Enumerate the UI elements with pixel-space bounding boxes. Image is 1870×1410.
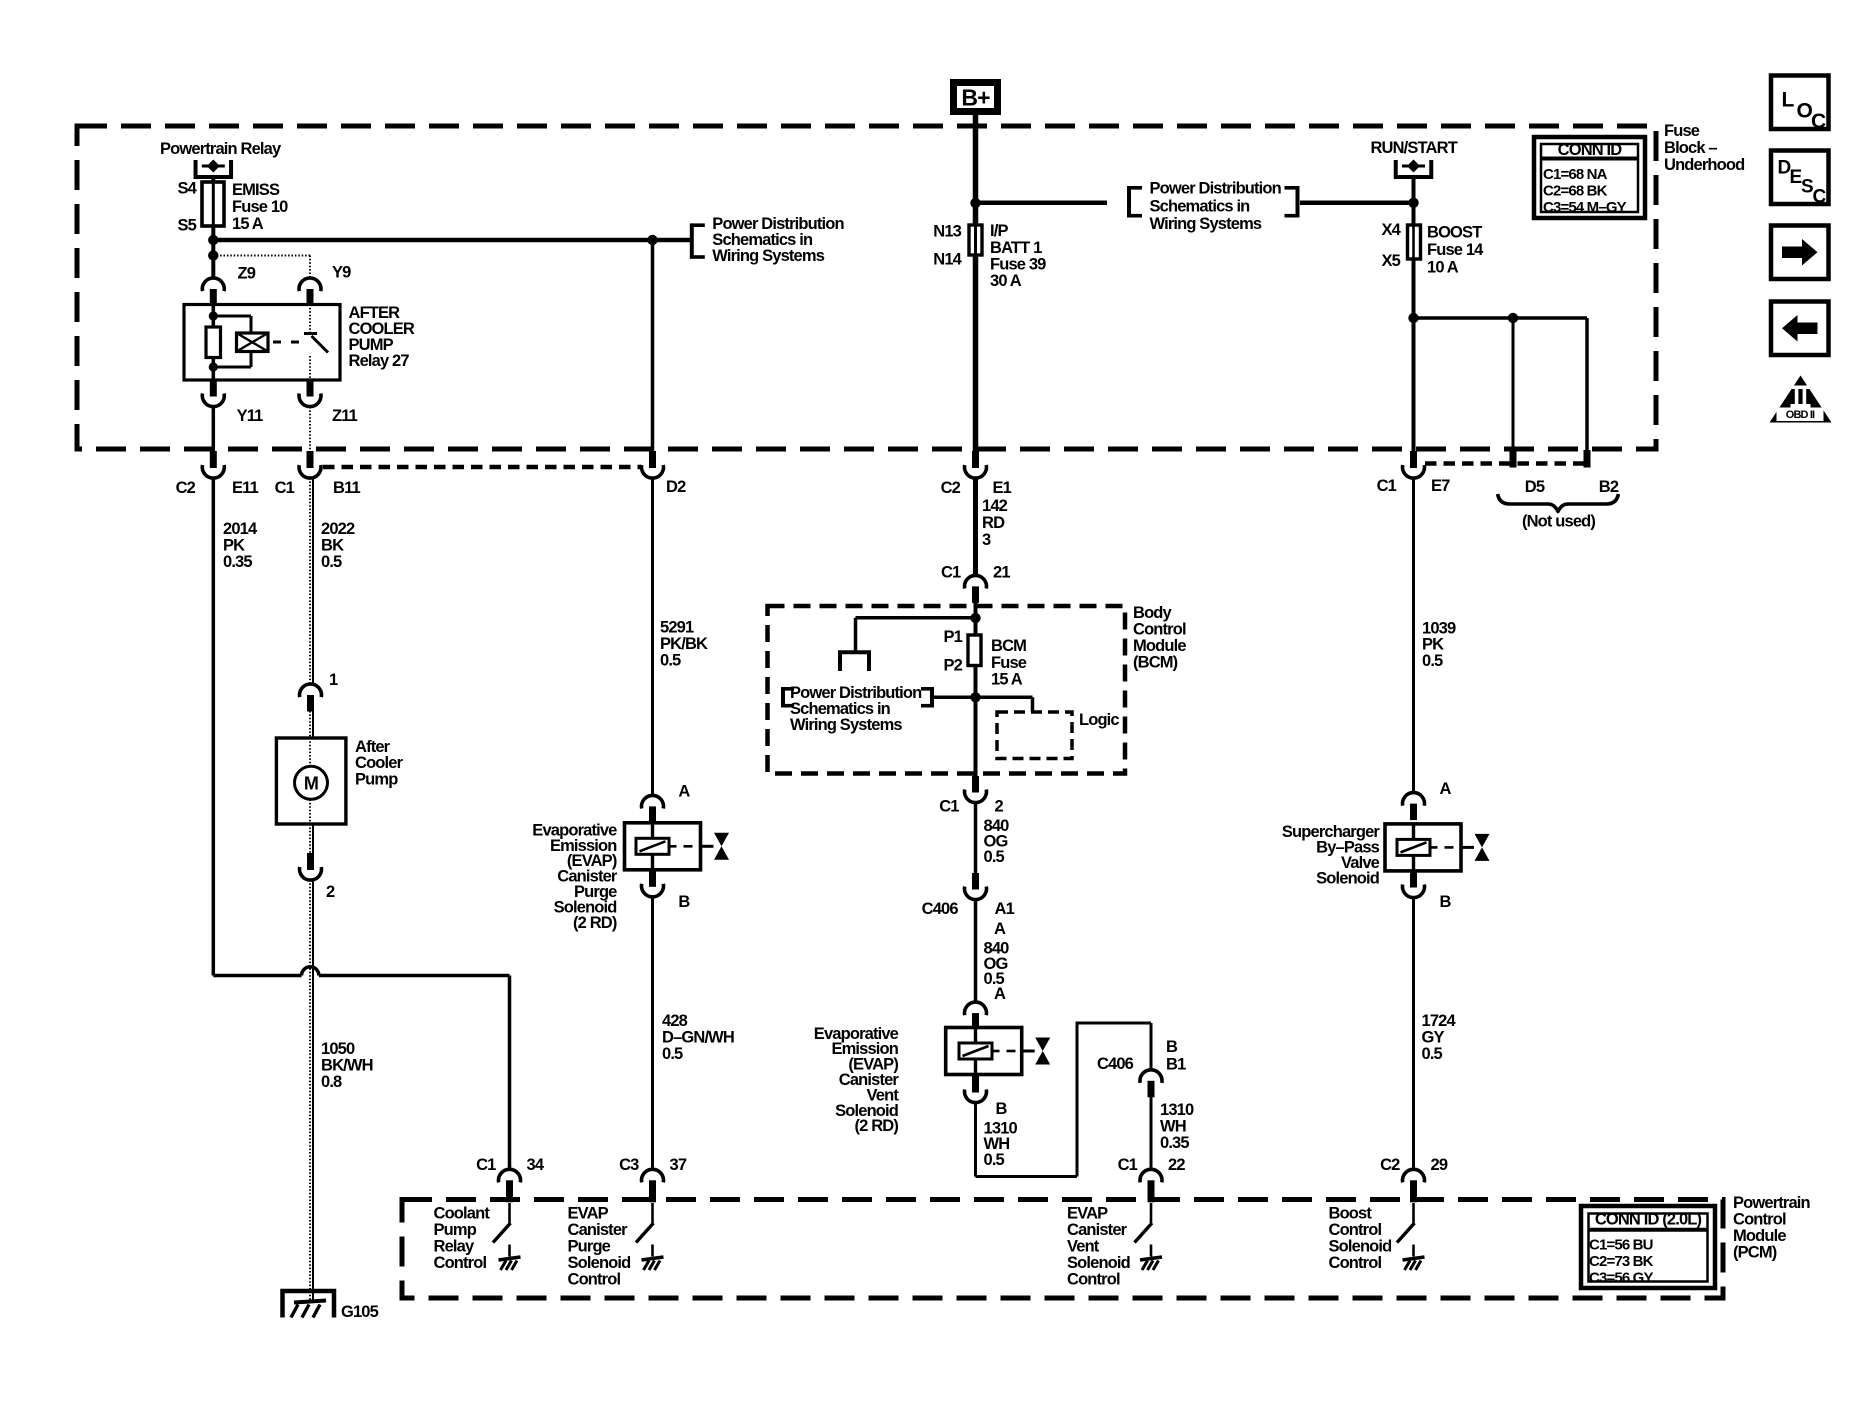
svg-text:WH: WH — [1160, 1117, 1186, 1135]
svg-text:22: 22 — [1168, 1156, 1185, 1174]
svg-text:Control: Control — [1733, 1210, 1786, 1228]
svg-text:Module: Module — [1133, 637, 1186, 655]
svg-text:Logic: Logic — [1079, 711, 1119, 729]
svg-text:30 A: 30 A — [990, 272, 1022, 290]
svg-text:Wiring Systems: Wiring Systems — [1150, 215, 1262, 233]
svg-text:C: C — [1811, 110, 1826, 133]
svg-text:Powertrain Relay: Powertrain Relay — [160, 140, 282, 158]
svg-text:1050: 1050 — [321, 1040, 355, 1058]
svg-text:E1: E1 — [993, 479, 1012, 497]
svg-text:A: A — [994, 920, 1006, 938]
svg-text:BK/WH: BK/WH — [321, 1056, 373, 1074]
svg-text:Fuse 39: Fuse 39 — [990, 255, 1046, 273]
svg-text:CONN ID (2.0L): CONN ID (2.0L) — [1595, 1210, 1702, 1228]
svg-text:C3=56 GY: C3=56 GY — [1589, 1269, 1654, 1286]
svg-text:(Not used): (Not used) — [1522, 512, 1595, 530]
svg-text:0.35: 0.35 — [1160, 1134, 1189, 1152]
svg-text:PK: PK — [223, 536, 245, 554]
svg-text:Wiring Systems: Wiring Systems — [790, 716, 902, 734]
svg-text:Fuse 14: Fuse 14 — [1427, 241, 1484, 259]
svg-text:C1: C1 — [275, 479, 295, 497]
svg-text:C1: C1 — [476, 1156, 496, 1174]
svg-text:C2: C2 — [941, 479, 961, 497]
svg-text:Pump: Pump — [434, 1221, 477, 1239]
svg-text:Control: Control — [1133, 620, 1186, 638]
svg-text:Relay 27: Relay 27 — [349, 352, 410, 370]
svg-text:34: 34 — [527, 1156, 545, 1174]
svg-text:Solenoid: Solenoid — [1067, 1254, 1130, 1272]
svg-text:BCM: BCM — [991, 637, 1026, 655]
svg-text:5291: 5291 — [660, 618, 694, 636]
svg-text:C1: C1 — [1118, 1156, 1138, 1174]
svg-text:S: S — [1801, 176, 1813, 197]
svg-text:0.5: 0.5 — [1422, 652, 1443, 670]
svg-text:S4: S4 — [178, 179, 198, 197]
svg-text:Power Distribution: Power Distribution — [1150, 180, 1282, 198]
svg-text:Z11: Z11 — [332, 407, 358, 425]
svg-text:Y11: Y11 — [237, 407, 264, 425]
svg-text:2: 2 — [995, 797, 1004, 815]
svg-text:1724: 1724 — [1422, 1012, 1457, 1030]
svg-text:GY: GY — [1422, 1028, 1445, 1046]
svg-text:C1: C1 — [941, 563, 961, 581]
svg-text:Fuse 10: Fuse 10 — [232, 198, 288, 216]
svg-text:L: L — [1782, 89, 1795, 112]
svg-text:E11: E11 — [232, 479, 259, 497]
svg-text:Cooler: Cooler — [355, 754, 404, 772]
svg-text:C1: C1 — [939, 797, 959, 815]
svg-text:Body: Body — [1133, 604, 1173, 622]
svg-text:E7: E7 — [1431, 477, 1450, 495]
svg-text:Solenoid: Solenoid — [568, 1254, 631, 1272]
svg-text:Powertrain: Powertrain — [1733, 1194, 1811, 1212]
svg-text:(2 RD): (2 RD) — [573, 914, 617, 932]
svg-text:Fuse: Fuse — [991, 654, 1027, 672]
svg-text:N13: N13 — [933, 222, 961, 240]
svg-text:Z9: Z9 — [238, 264, 256, 282]
svg-text:0.8: 0.8 — [321, 1073, 342, 1091]
svg-text:C2=68 BK: C2=68 BK — [1543, 182, 1608, 199]
svg-text:EVAP: EVAP — [568, 1204, 609, 1222]
svg-text:2: 2 — [326, 883, 335, 901]
svg-text:C1=68 NA: C1=68 NA — [1543, 166, 1608, 183]
svg-text:0.35: 0.35 — [223, 553, 252, 571]
svg-text:(BCM): (BCM) — [1133, 653, 1178, 671]
svg-text:Canister: Canister — [568, 1221, 629, 1239]
svg-text:BK: BK — [321, 536, 344, 554]
svg-text:C2: C2 — [1380, 1156, 1400, 1174]
svg-text:Y9: Y9 — [332, 264, 351, 282]
svg-text:C406: C406 — [922, 900, 959, 918]
svg-text:C1=56 BU: C1=56 BU — [1589, 1236, 1653, 1253]
svg-text:Block –: Block – — [1664, 139, 1717, 157]
svg-text:1: 1 — [329, 671, 338, 689]
svg-text:EMISS: EMISS — [232, 181, 280, 199]
svg-text:142: 142 — [982, 497, 1008, 515]
svg-text:B2: B2 — [1599, 478, 1619, 496]
svg-text:X4: X4 — [1382, 221, 1402, 239]
svg-text:C3=54 M–GY: C3=54 M–GY — [1543, 199, 1627, 216]
svg-text:I/P: I/P — [990, 222, 1008, 240]
svg-text:G105: G105 — [341, 1303, 379, 1321]
svg-text:0.5: 0.5 — [660, 651, 681, 669]
svg-text:37: 37 — [670, 1156, 687, 1174]
svg-text:29: 29 — [1431, 1156, 1448, 1174]
svg-text:2014: 2014 — [223, 520, 258, 538]
svg-text:C2=73 BK: C2=73 BK — [1589, 1253, 1654, 1270]
svg-text:Purge: Purge — [568, 1237, 611, 1255]
svg-text:B11: B11 — [333, 479, 360, 497]
svg-text:Control: Control — [1067, 1270, 1120, 1288]
svg-text:Solenoid: Solenoid — [1316, 870, 1379, 888]
svg-text:S5: S5 — [178, 216, 197, 234]
svg-text:Wiring Systems: Wiring Systems — [712, 247, 824, 265]
svg-text:C: C — [1813, 186, 1827, 207]
svg-text:A: A — [678, 782, 690, 800]
svg-text:N14: N14 — [933, 250, 962, 268]
svg-text:Vent: Vent — [1067, 1237, 1100, 1255]
svg-text:C1: C1 — [1377, 477, 1397, 495]
svg-text:0.5: 0.5 — [984, 1151, 1005, 1169]
svg-text:B: B — [996, 1100, 1008, 1118]
svg-text:RUN/START: RUN/START — [1370, 139, 1457, 157]
svg-text:3: 3 — [982, 531, 991, 549]
svg-text:BATT 1: BATT 1 — [990, 239, 1042, 257]
svg-text:Coolant: Coolant — [434, 1204, 491, 1222]
svg-text:2022: 2022 — [321, 520, 355, 538]
svg-text:B+: B+ — [961, 84, 990, 110]
svg-text:428: 428 — [662, 1012, 688, 1030]
svg-text:Control: Control — [1329, 1254, 1382, 1272]
svg-text:Canister: Canister — [1067, 1221, 1128, 1239]
svg-text:Fuse: Fuse — [1664, 122, 1700, 140]
svg-text:PK: PK — [1422, 635, 1444, 653]
svg-text:B: B — [678, 893, 690, 911]
svg-text:P1: P1 — [944, 628, 963, 646]
svg-text:M: M — [304, 774, 318, 794]
svg-text:A: A — [1440, 780, 1452, 798]
svg-text:PK/BK: PK/BK — [660, 635, 708, 653]
svg-text:(PCM): (PCM) — [1733, 1243, 1777, 1261]
svg-text:0.5: 0.5 — [984, 848, 1005, 866]
svg-text:(2 RD): (2 RD) — [855, 1117, 899, 1135]
svg-text:EVAP: EVAP — [1067, 1204, 1108, 1222]
svg-text:A: A — [994, 985, 1006, 1003]
svg-text:Control: Control — [434, 1254, 487, 1272]
svg-text:Control: Control — [1329, 1221, 1382, 1239]
svg-text:0.5: 0.5 — [662, 1045, 683, 1063]
svg-text:OBD II: OBD II — [1786, 409, 1815, 421]
svg-text:Solenoid: Solenoid — [1329, 1237, 1392, 1255]
svg-text:D–GN/WH: D–GN/WH — [662, 1028, 734, 1046]
svg-text:D2: D2 — [666, 478, 686, 496]
svg-text:D5: D5 — [1525, 478, 1545, 496]
svg-text:Pump: Pump — [355, 770, 398, 788]
svg-text:Boost: Boost — [1329, 1204, 1373, 1222]
svg-text:0.5: 0.5 — [1422, 1045, 1443, 1063]
svg-text:15 A: 15 A — [991, 670, 1023, 688]
svg-text:10 A: 10 A — [1427, 258, 1459, 276]
svg-text:X5: X5 — [1382, 252, 1401, 270]
svg-text:B: B — [1166, 1038, 1178, 1056]
svg-text:Schematics in: Schematics in — [1150, 197, 1251, 215]
svg-text:RD: RD — [982, 514, 1005, 532]
svg-text:B: B — [1440, 893, 1452, 911]
svg-text:C406: C406 — [1097, 1055, 1134, 1073]
svg-text:15 A: 15 A — [232, 215, 264, 233]
svg-text:C3: C3 — [619, 1156, 639, 1174]
svg-text:21: 21 — [993, 563, 1010, 581]
svg-text:Module: Module — [1733, 1227, 1786, 1245]
svg-text:B1: B1 — [1166, 1055, 1186, 1073]
svg-text:BOOST: BOOST — [1427, 223, 1482, 241]
svg-text:P2: P2 — [944, 656, 963, 674]
svg-text:Underhood: Underhood — [1664, 156, 1744, 174]
svg-text:CONN ID: CONN ID — [1558, 141, 1623, 159]
svg-text:A1: A1 — [995, 900, 1015, 918]
svg-text:C2: C2 — [176, 479, 196, 497]
svg-text:Relay: Relay — [434, 1237, 475, 1255]
svg-text:E: E — [1790, 167, 1802, 188]
svg-text:0.5: 0.5 — [321, 553, 342, 571]
svg-text:Control: Control — [568, 1270, 621, 1288]
svg-text:1310: 1310 — [1160, 1101, 1194, 1119]
